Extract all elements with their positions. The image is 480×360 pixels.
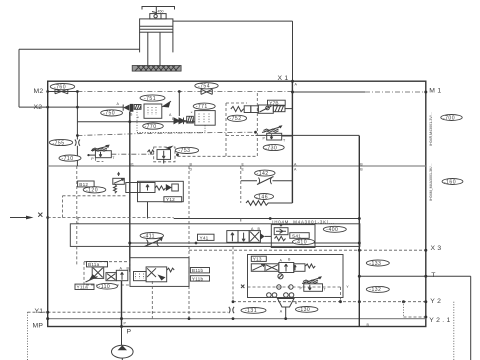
svg-text:-146: -146 [256, 194, 268, 200]
svg-text:-751: -751 [144, 96, 156, 102]
svg-text:IH04R,M43001-3V/...: IH04R,M43001-3V/... [429, 112, 433, 146]
svg-text:-710: -710 [62, 156, 74, 162]
svg-text:-160: -160 [444, 179, 456, 185]
svg-text:-754: -754 [198, 84, 210, 90]
svg-text:-752: -752 [230, 116, 242, 122]
svg-text:D: D [190, 167, 193, 171]
svg-text:-753: -753 [178, 148, 190, 154]
svg-text:X 1: X 1 [278, 75, 289, 82]
svg-text:Y11b: Y11b [192, 276, 204, 281]
svg-text:M 1: M 1 [429, 88, 441, 95]
svg-text:-411: -411 [143, 233, 155, 239]
svg-text:Y41: Y41 [200, 235, 209, 240]
svg-text:-132: -132 [369, 287, 381, 293]
svg-text:-131: -131 [245, 308, 257, 314]
svg-text:-700: -700 [443, 115, 455, 121]
svg-text:-750: -750 [103, 111, 115, 117]
svg-text:Y11a: Y11a [77, 285, 89, 290]
svg-text:IH04M. M4A3001-3K/...: IH04M. M4A3001-3K/... [272, 219, 335, 224]
svg-text:Y 2: Y 2 [430, 298, 441, 305]
svg-text:X2: X2 [34, 104, 43, 111]
svg-text:P: P [127, 329, 132, 336]
svg-text:Y7B: Y7B [269, 100, 278, 105]
svg-text:Y 2 . 1: Y 2 . 1 [429, 317, 450, 324]
svg-text:Y12: Y12 [166, 197, 175, 202]
svg-text:-130: -130 [298, 307, 310, 313]
svg-text:-142: -142 [257, 171, 269, 177]
svg-text:-730: -730 [265, 145, 277, 151]
svg-text:B1: B1 [130, 162, 134, 166]
svg-text:MP: MP [33, 322, 44, 329]
svg-text:-771: -771 [196, 104, 208, 110]
svg-text:X 3: X 3 [431, 245, 442, 252]
svg-text:Y13: Y13 [253, 257, 262, 262]
svg-text:B11b: B11b [192, 268, 204, 273]
svg-text:-770: -770 [145, 124, 157, 130]
svg-text:-400: -400 [326, 227, 338, 233]
svg-text:450: 450 [158, 10, 164, 14]
svg-text:-110: -110 [99, 284, 111, 290]
svg-text:-755: -755 [53, 140, 65, 146]
svg-text:T: T [431, 272, 435, 279]
svg-text:M2: M2 [34, 88, 44, 95]
svg-text:IH04M_M4A3001-3K/...: IH04M_M4A3001-3K/... [429, 163, 433, 201]
svg-text:-410: -410 [295, 240, 307, 246]
svg-text:×: × [191, 111, 193, 115]
svg-text:Y1: Y1 [35, 308, 44, 315]
svg-text:-120: -120 [86, 188, 98, 194]
svg-text:-133: -133 [369, 261, 381, 267]
svg-text:B11a: B11a [88, 262, 100, 267]
svg-text:-760: -760 [54, 84, 66, 90]
svg-text:S41: S41 [292, 233, 301, 238]
svg-text:B12: B12 [79, 182, 88, 187]
